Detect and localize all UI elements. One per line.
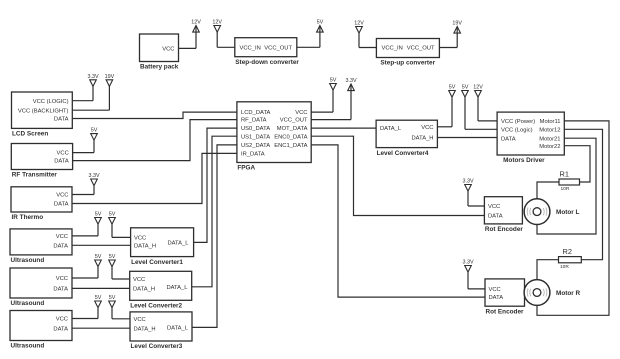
svg-text:Motor L: Motor L bbox=[556, 209, 580, 216]
wire IR VCC to 3.3V bbox=[72, 194, 94, 196]
svg-text:Level Converter3: Level Converter3 bbox=[131, 343, 183, 350]
svg-text:DATA: DATA bbox=[54, 159, 69, 165]
svg-text:VCC: VCC bbox=[421, 125, 433, 131]
svg-text:IR Thermo: IR Thermo bbox=[12, 214, 44, 221]
svg-text:DATA_H: DATA_H bbox=[133, 287, 155, 293]
svg-text:VCC_IN: VCC_IN bbox=[382, 46, 403, 52]
svg-text:DATA_L: DATA_L bbox=[166, 285, 188, 291]
svg-text:Motor12: Motor12 bbox=[539, 127, 560, 133]
svg-text:DATA: DATA bbox=[54, 117, 69, 123]
svg-text:Level Converter4: Level Converter4 bbox=[377, 150, 429, 157]
wire Motor11 to Motor R minus bbox=[537, 121, 609, 315]
svg-text:VCC: VCC bbox=[133, 277, 145, 283]
wire LCD VCC(BACKLIGHT) to 19V bbox=[72, 109, 109, 111]
svg-text:3.3V: 3.3V bbox=[345, 78, 356, 84]
power 5V motors logic bbox=[462, 85, 469, 130]
svg-text:VCC: VCC bbox=[56, 193, 68, 199]
svg-text:Ultrasound: Ultrasound bbox=[11, 343, 45, 350]
wire Ultrasound1 DATA to LC1 DATA_H bbox=[72, 244, 131, 246]
svg-text:3.3V: 3.3V bbox=[87, 74, 98, 80]
power 3.3V LCD logic bbox=[87, 74, 98, 101]
block Battery pack bbox=[140, 34, 179, 62]
label Motors Driver bbox=[503, 157, 545, 164]
wire LC4 DATA_H to Motors Driver DATA bbox=[437, 137, 497, 139]
svg-text:DATA: DATA bbox=[54, 202, 69, 208]
wire LC3 VCC to 5V bbox=[112, 318, 130, 320]
svg-text:5V: 5V bbox=[109, 295, 116, 301]
svg-text:Step-down converter: Step-down converter bbox=[235, 59, 299, 66]
svg-text:Rot Encoder: Rot Encoder bbox=[486, 308, 525, 315]
svg-text:10R: 10R bbox=[561, 186, 570, 192]
power 5V level converter1 bbox=[109, 212, 116, 238]
wire FPGA VCC_OUT to 3.3V bbox=[311, 119, 351, 121]
label Level Converter1 bbox=[131, 259, 183, 266]
svg-text:12V: 12V bbox=[473, 85, 483, 91]
svg-text:Level Converter2: Level Converter2 bbox=[130, 303, 182, 310]
power 5V FPGA bbox=[330, 78, 337, 113]
wire Ultrasound2 VCC to 5V bbox=[72, 277, 98, 279]
power 3.3V rot encoder L bbox=[462, 179, 473, 207]
svg-text:5V: 5V bbox=[91, 128, 98, 134]
svg-text:DATA: DATA bbox=[53, 243, 68, 249]
power 12V motors power bbox=[473, 85, 483, 121]
svg-text:VCC: VCC bbox=[57, 151, 69, 157]
wire LC4 VCC to 5V bbox=[437, 126, 452, 128]
block Ultrasound 3 bbox=[10, 311, 72, 341]
label Ultrasound bbox=[11, 343, 45, 350]
svg-text:5V: 5V bbox=[95, 295, 102, 301]
svg-text:VCC: VCC bbox=[162, 47, 174, 53]
svg-text:VCC_OUT: VCC_OUT bbox=[280, 118, 308, 124]
power 19V step-up output bbox=[452, 21, 462, 48]
svg-text:R1: R1 bbox=[560, 169, 569, 178]
svg-text:5V: 5V bbox=[330, 78, 337, 84]
power 3.3V FPGA output bbox=[345, 78, 356, 120]
svg-text:Step-up converter: Step-up converter bbox=[380, 60, 435, 67]
wire LC2 VCC to 5V bbox=[112, 278, 130, 280]
svg-text:19V: 19V bbox=[105, 74, 115, 80]
svg-text:3.3V: 3.3V bbox=[88, 173, 99, 179]
wire LC1 DATA_L to FPGA US0_DATA bbox=[194, 128, 237, 242]
svg-text:VCC_OUT: VCC_OUT bbox=[407, 46, 435, 52]
resistor R2 10R bbox=[559, 247, 582, 270]
wire Battery VCC to 12V net bbox=[179, 47, 197, 49]
svg-text:Motor21: Motor21 bbox=[539, 136, 560, 142]
power 12V step-down input bbox=[212, 20, 222, 48]
svg-text:Level Converter1: Level Converter1 bbox=[131, 259, 183, 266]
power 3.3V rot encoder R bbox=[462, 260, 473, 289]
wire Motor R plus to R2 left bbox=[537, 260, 559, 280]
svg-text:IR_DATA: IR_DATA bbox=[241, 152, 265, 158]
wire Motor21 to Motor L minus bbox=[537, 138, 596, 234]
label Step-down converter bbox=[235, 59, 299, 66]
svg-text:5V: 5V bbox=[317, 20, 324, 26]
power 5V RF transmitter bbox=[91, 128, 98, 153]
resistor R1 10R bbox=[559, 169, 580, 192]
wire Ultrasound3 VCC to 5V bbox=[72, 318, 98, 320]
block Level Converter1 bbox=[131, 228, 194, 257]
svg-text:DATA: DATA bbox=[53, 287, 68, 293]
wire RF VCC to 5V bbox=[73, 152, 94, 154]
svg-text:DATA_H: DATA_H bbox=[411, 136, 433, 142]
power 5V ultrasound3 bbox=[95, 295, 102, 319]
power 5V ultrasound2 bbox=[95, 254, 102, 278]
wire 12V net to Step-down VCC_IN bbox=[217, 46, 235, 48]
svg-text:3.3V: 3.3V bbox=[462, 179, 473, 185]
svg-text:VCC: VCC bbox=[56, 276, 68, 282]
svg-text:DATA_L: DATA_L bbox=[167, 241, 189, 247]
block FPGA U1 bbox=[237, 102, 311, 163]
svg-text:VCC: VCC bbox=[489, 287, 501, 293]
svg-text:Motor22: Motor22 bbox=[539, 144, 560, 150]
svg-text:5V: 5V bbox=[95, 254, 102, 260]
label Rot Encoder bbox=[486, 308, 525, 315]
power 12V step-up input bbox=[354, 21, 364, 48]
svg-text:Rot Encoder: Rot Encoder bbox=[485, 226, 524, 233]
wire 3.3V to Rot Encoder L VCC bbox=[468, 205, 484, 207]
svg-text:US2_DATA: US2_DATA bbox=[241, 143, 270, 149]
svg-text:ENC1_DATA: ENC1_DATA bbox=[274, 143, 307, 149]
wire FPGA MOT_DATA to LC4 DATA_L bbox=[311, 127, 376, 129]
power 5V ultrasound1 bbox=[95, 212, 102, 236]
wire FPGA VCC to 5V bbox=[311, 111, 333, 113]
svg-text:Battery pack: Battery pack bbox=[140, 64, 179, 71]
wire LCD DATA to FPGA LCD_DATA bbox=[72, 112, 237, 118]
wire Ultrasound3 DATA to LC3 DATA_H bbox=[72, 327, 130, 329]
power 5V level converter4 bbox=[449, 85, 456, 127]
svg-text:LCD Screen: LCD Screen bbox=[12, 131, 48, 138]
wire 5V to Motors Driver VCC(Logic) bbox=[465, 128, 497, 130]
svg-text:DATA_H: DATA_H bbox=[134, 326, 156, 332]
svg-text:DATA: DATA bbox=[53, 326, 68, 332]
wire LC3 DATA_L to FPGA US2_DATA bbox=[192, 145, 237, 328]
svg-text:5V: 5V bbox=[449, 85, 456, 91]
wire FPGA ENC0_DATA to Rot Encoder L DATA bbox=[311, 136, 484, 215]
label Rot Encoder bbox=[485, 226, 524, 233]
wire Motor12 to R2 right bbox=[564, 129, 602, 259]
svg-text:VCC_OUT: VCC_OUT bbox=[264, 45, 292, 51]
svg-text:US0_DATA: US0_DATA bbox=[241, 126, 270, 132]
svg-text:R2: R2 bbox=[563, 247, 572, 256]
power 19V LCD backlight bbox=[105, 74, 115, 110]
block IR Thermo bbox=[11, 187, 72, 212]
svg-text:VCC (BACKLIGHT): VCC (BACKLIGHT) bbox=[18, 108, 69, 114]
svg-text:VCC (Logic): VCC (Logic) bbox=[501, 127, 533, 133]
wire RF DATA to FPGA RF_DATA bbox=[73, 120, 237, 161]
block RF Transmitter bbox=[11, 144, 72, 170]
block Ultrasound 2 bbox=[10, 268, 72, 298]
label IR Thermo bbox=[12, 214, 44, 221]
label LCD Screen bbox=[12, 131, 48, 138]
svg-text:US1_DATA: US1_DATA bbox=[241, 134, 270, 140]
svg-text:12V: 12V bbox=[212, 20, 222, 26]
svg-text:VCC: VCC bbox=[134, 317, 146, 323]
svg-text:DATA_H: DATA_H bbox=[134, 243, 156, 249]
wire LC2 DATA_L to FPGA US1_DATA bbox=[192, 136, 237, 287]
power 5V level converter2 bbox=[109, 254, 116, 279]
motor Motor L bbox=[524, 199, 550, 225]
block Level Converter3 bbox=[130, 312, 192, 341]
svg-text:12V: 12V bbox=[191, 20, 201, 26]
svg-text:ENC0_DATA: ENC0_DATA bbox=[274, 134, 307, 140]
label FPGA bbox=[237, 165, 255, 172]
svg-text:RF_DATA: RF_DATA bbox=[241, 118, 267, 124]
svg-text:19V: 19V bbox=[452, 21, 462, 27]
label Motor R bbox=[556, 290, 581, 297]
label Level Converter2 bbox=[130, 303, 182, 310]
power 12V battery output bbox=[191, 20, 201, 49]
label Step-up converter bbox=[380, 60, 435, 67]
block Level Converter4 bbox=[376, 120, 437, 147]
svg-text:3.3V: 3.3V bbox=[462, 260, 473, 266]
label RF Transmitter bbox=[12, 172, 58, 179]
wire 3.3V to Rot Encoder R VCC bbox=[468, 288, 485, 290]
block Rot Encoder R bbox=[485, 279, 525, 306]
svg-text:LCD_DATA: LCD_DATA bbox=[241, 110, 271, 116]
svg-text:Motors Driver: Motors Driver bbox=[503, 157, 545, 164]
svg-text:MOT_DATA: MOT_DATA bbox=[277, 126, 308, 132]
block Level Converter2 bbox=[130, 271, 192, 300]
svg-text:5V: 5V bbox=[109, 212, 116, 218]
label Ultrasound bbox=[11, 257, 45, 264]
wire 12V to Motors Driver VCC(Power) bbox=[478, 120, 497, 122]
wire LC1 VCC to 5V bbox=[112, 236, 131, 238]
label Level Converter4 bbox=[377, 150, 429, 157]
svg-text:5V: 5V bbox=[109, 254, 116, 260]
svg-text:VCC (LOGIC): VCC (LOGIC) bbox=[33, 99, 69, 105]
wire Motor L plus to R1 left bbox=[537, 182, 559, 199]
svg-text:Ultrasound: Ultrasound bbox=[11, 257, 45, 264]
wire LCD VCC(LOGIC) to 3.3V bbox=[72, 100, 93, 102]
power 3.3V IR thermo bbox=[88, 173, 99, 195]
wire Motor22 to R1 right bbox=[564, 146, 590, 182]
wire 12V net to Step-up VCC_IN bbox=[359, 47, 376, 49]
svg-text:RF Transmitter: RF Transmitter bbox=[12, 172, 58, 179]
block Motors Driver bbox=[497, 112, 564, 155]
svg-text:VCC: VCC bbox=[295, 110, 307, 116]
svg-text:DATA: DATA bbox=[501, 136, 516, 142]
motor Motor R bbox=[524, 280, 550, 306]
svg-text:VCC_IN: VCC_IN bbox=[240, 45, 261, 51]
block Step-up converter bbox=[376, 39, 439, 58]
label Motor L bbox=[556, 209, 580, 216]
svg-text:DATA: DATA bbox=[488, 214, 503, 220]
block Ultrasound 1 bbox=[10, 229, 72, 255]
wire FPGA ENC1_DATA to Rot Encoder R DATA bbox=[311, 145, 485, 297]
wire Ultrasound2 DATA to LC2 DATA_H bbox=[72, 287, 130, 289]
power 5V level converter3 bbox=[109, 295, 116, 319]
svg-text:DATA: DATA bbox=[489, 295, 504, 301]
power 5V step-down output bbox=[317, 20, 324, 48]
block Rot Encoder L bbox=[484, 197, 522, 224]
wire IR DATA to FPGA IR_DATA bbox=[72, 153, 237, 203]
svg-text:10R: 10R bbox=[560, 264, 569, 270]
wire Step-down VCC_OUT to 5V net bbox=[297, 46, 320, 48]
label Ultrasound bbox=[11, 300, 45, 307]
svg-text:Motor11: Motor11 bbox=[540, 119, 561, 125]
svg-text:VCC: VCC bbox=[488, 204, 500, 210]
svg-text:FPGA: FPGA bbox=[237, 165, 255, 172]
svg-text:Motor R: Motor R bbox=[556, 290, 581, 297]
label Battery pack bbox=[140, 64, 179, 71]
svg-text:5V: 5V bbox=[95, 212, 102, 218]
label Level Converter3 bbox=[131, 343, 183, 350]
wire Ultrasound1 VCC to 5V bbox=[72, 235, 98, 237]
block Step-down converter bbox=[235, 38, 297, 57]
svg-text:5V: 5V bbox=[462, 85, 469, 91]
svg-text:DATA_L: DATA_L bbox=[167, 326, 189, 332]
svg-text:12V: 12V bbox=[354, 21, 364, 27]
block LCD Screen bbox=[12, 92, 73, 128]
svg-text:DATA_L: DATA_L bbox=[380, 126, 402, 132]
svg-text:Ultrasound: Ultrasound bbox=[11, 300, 45, 307]
svg-text:VCC (Power): VCC (Power) bbox=[501, 119, 535, 125]
svg-text:VCC: VCC bbox=[134, 236, 146, 242]
svg-text:VCC: VCC bbox=[56, 317, 68, 323]
wire Step-up VCC_OUT to 19V net bbox=[439, 47, 457, 49]
svg-text:VCC: VCC bbox=[56, 234, 68, 240]
